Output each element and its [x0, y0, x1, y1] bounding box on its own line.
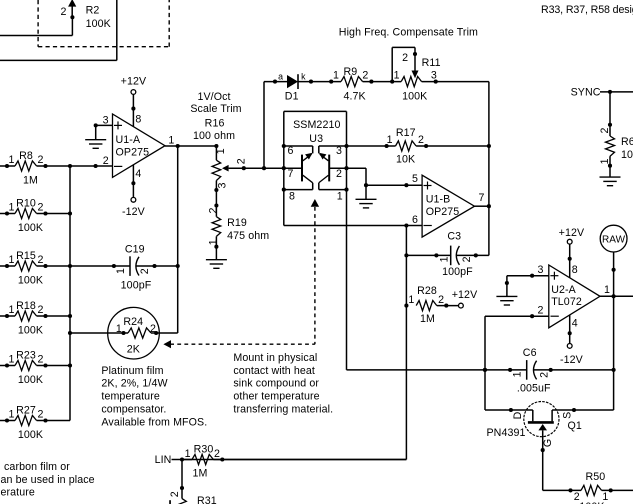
svg-text:100K: 100K — [621, 149, 633, 161]
svg-text:2: 2 — [169, 491, 181, 497]
svg-text:2: 2 — [37, 354, 43, 366]
svg-text:1: 1 — [394, 70, 400, 82]
svg-text:R18: R18 — [16, 300, 36, 312]
svg-text:1: 1 — [185, 448, 191, 460]
svg-text:k: k — [301, 72, 306, 82]
svg-text:R11: R11 — [422, 57, 441, 69]
svg-text:4.7K: 4.7K — [343, 91, 365, 103]
svg-text:LIN: LIN — [155, 454, 172, 466]
svg-text:OP275: OP275 — [116, 147, 150, 159]
svg-text:100K: 100K — [86, 18, 111, 30]
svg-text:C6: C6 — [523, 347, 537, 359]
svg-text:1: 1 — [387, 134, 393, 146]
svg-text:1: 1 — [599, 158, 611, 164]
svg-text:1V/Oct: 1V/Oct — [197, 91, 230, 103]
svg-text:2: 2 — [37, 254, 43, 266]
svg-text:2K: 2K — [127, 344, 140, 356]
svg-text:2: 2 — [362, 70, 368, 82]
svg-text:1: 1 — [8, 304, 14, 316]
svg-text:compensator.: compensator. — [101, 404, 166, 416]
svg-text:other temperature: other temperature — [233, 391, 319, 403]
svg-text:R28: R28 — [417, 285, 437, 297]
svg-text:R30: R30 — [194, 443, 214, 455]
svg-text:2: 2 — [438, 294, 444, 306]
svg-text:2: 2 — [236, 158, 248, 164]
svg-text:R33, R37, R58 design: R33, R37, R58 design — [541, 4, 633, 16]
svg-text:3: 3 — [336, 145, 342, 157]
svg-text:U1-B: U1-B — [426, 194, 451, 206]
svg-text:carbon film or: carbon film or — [4, 461, 70, 473]
svg-text:High Freq. Compensate Trim: High Freq. Compensate Trim — [339, 26, 478, 38]
svg-text:1: 1 — [8, 354, 14, 366]
svg-text:2: 2 — [150, 323, 156, 335]
svg-text:temperature: temperature — [101, 391, 159, 403]
svg-text:TL072: TL072 — [551, 296, 582, 308]
svg-text:5: 5 — [412, 173, 418, 185]
svg-text:1: 1 — [168, 135, 174, 147]
svg-text:R9: R9 — [343, 66, 357, 78]
svg-text:475 ohm: 475 ohm — [227, 230, 269, 242]
svg-text:8: 8 — [289, 190, 295, 202]
svg-text:3: 3 — [217, 182, 229, 188]
svg-text:a: a — [278, 72, 283, 82]
svg-text:R15: R15 — [16, 250, 36, 262]
svg-text:2: 2 — [418, 134, 424, 146]
svg-text:2: 2 — [537, 304, 543, 316]
svg-text:100 ohm: 100 ohm — [193, 130, 235, 142]
svg-text:R16: R16 — [205, 117, 225, 129]
svg-text:2: 2 — [37, 304, 43, 316]
svg-text:-12V: -12V — [560, 354, 584, 366]
svg-text:U3: U3 — [309, 133, 323, 145]
svg-text:8: 8 — [135, 114, 141, 126]
svg-text:3: 3 — [431, 70, 437, 82]
svg-text:transferring material.: transferring material. — [233, 404, 333, 416]
svg-text:R19: R19 — [227, 217, 247, 229]
svg-text:2: 2 — [37, 409, 43, 421]
svg-text:4: 4 — [572, 317, 578, 329]
svg-text:Q1: Q1 — [567, 420, 581, 432]
svg-text:100K: 100K — [18, 325, 43, 337]
svg-text:R17: R17 — [396, 127, 416, 139]
svg-text:100pF: 100pF — [442, 266, 473, 278]
svg-text:+12V: +12V — [559, 227, 585, 239]
svg-text:2: 2 — [139, 268, 151, 274]
svg-text:1: 1 — [8, 409, 14, 421]
svg-text:1M: 1M — [23, 175, 38, 187]
svg-text:SSM2210: SSM2210 — [293, 119, 340, 131]
svg-text:1: 1 — [512, 371, 524, 377]
svg-text:1: 1 — [8, 254, 14, 266]
svg-text:G: G — [542, 439, 554, 447]
svg-text:1: 1 — [337, 190, 343, 202]
svg-text:R2: R2 — [86, 5, 100, 17]
svg-text:-12V: -12V — [122, 206, 146, 218]
svg-text:1M: 1M — [420, 313, 435, 325]
svg-text:contact with heat: contact with heat — [233, 365, 315, 377]
svg-text:3: 3 — [537, 264, 543, 276]
svg-text:100K: 100K — [18, 374, 43, 386]
svg-text:4: 4 — [135, 168, 141, 180]
svg-text:S: S — [562, 412, 574, 419]
svg-text:2: 2 — [103, 155, 109, 167]
svg-text:R23: R23 — [16, 350, 36, 362]
svg-text:D1: D1 — [285, 91, 299, 103]
svg-text:8: 8 — [572, 264, 578, 276]
svg-text:U2-A: U2-A — [551, 284, 576, 296]
svg-text:2: 2 — [599, 127, 611, 133]
svg-text:2: 2 — [60, 6, 66, 18]
svg-text:3: 3 — [103, 114, 109, 126]
svg-text:erature: erature — [1, 487, 35, 499]
svg-text:+12V: +12V — [121, 75, 147, 87]
svg-text:7: 7 — [287, 168, 293, 180]
svg-text:R8: R8 — [19, 150, 33, 162]
svg-text:C19: C19 — [125, 243, 145, 255]
svg-text:2: 2 — [539, 372, 551, 378]
svg-text:10K: 10K — [396, 153, 415, 165]
svg-text:U1-A: U1-A — [116, 134, 141, 146]
svg-text:2: 2 — [336, 168, 342, 180]
svg-text:Available from MFOS.: Available from MFOS. — [101, 416, 207, 428]
svg-text:1: 1 — [8, 154, 14, 166]
svg-text:1: 1 — [408, 294, 414, 306]
svg-text:1: 1 — [333, 70, 339, 82]
svg-text:1: 1 — [116, 323, 122, 335]
svg-text:2: 2 — [208, 207, 220, 213]
svg-text:Platinum film: Platinum film — [101, 365, 163, 377]
svg-text:R10: R10 — [16, 198, 36, 210]
svg-text:100K: 100K — [18, 275, 43, 287]
svg-text:2: 2 — [402, 52, 408, 64]
svg-text:1: 1 — [8, 202, 14, 214]
svg-text:Scale Trim: Scale Trim — [190, 103, 241, 115]
svg-text:SYNC: SYNC — [571, 86, 601, 98]
svg-text:an be used in place: an be used in place — [1, 474, 95, 486]
svg-text:1: 1 — [215, 148, 227, 154]
svg-text:1: 1 — [208, 239, 220, 245]
svg-text:2: 2 — [37, 202, 43, 214]
svg-text:1: 1 — [604, 284, 610, 296]
svg-text:6: 6 — [287, 145, 293, 157]
svg-text:100pF: 100pF — [121, 279, 152, 291]
svg-text:7: 7 — [478, 192, 484, 204]
svg-text:R31: R31 — [197, 495, 217, 504]
svg-text:C3: C3 — [447, 231, 461, 243]
svg-text:R63: R63 — [621, 136, 633, 148]
svg-text:R24: R24 — [123, 316, 143, 328]
svg-text:6: 6 — [412, 214, 418, 226]
svg-text:1M: 1M — [193, 468, 208, 480]
svg-text:1: 1 — [115, 268, 127, 274]
svg-text:100K: 100K — [18, 222, 43, 234]
svg-text:R27: R27 — [16, 405, 36, 417]
svg-text:100K: 100K — [402, 91, 427, 103]
svg-text:2K, 2%, 1/4W: 2K, 2%, 1/4W — [101, 378, 167, 390]
svg-text:PN4391: PN4391 — [486, 427, 525, 439]
svg-text:2: 2 — [37, 154, 43, 166]
svg-text:Mount in physical: Mount in physical — [233, 352, 317, 364]
svg-text:1: 1 — [438, 256, 450, 262]
svg-text:RAW: RAW — [602, 234, 626, 245]
svg-text:OP275: OP275 — [426, 206, 460, 218]
svg-text:100K: 100K — [18, 429, 43, 441]
svg-text:.005uF: .005uF — [517, 383, 551, 395]
svg-text:2: 2 — [461, 256, 473, 262]
svg-text:sink compound or: sink compound or — [233, 378, 319, 390]
svg-text:R50: R50 — [585, 471, 605, 483]
svg-text:2: 2 — [214, 448, 220, 460]
svg-text:D: D — [512, 411, 524, 419]
svg-text:+12V: +12V — [452, 289, 478, 301]
